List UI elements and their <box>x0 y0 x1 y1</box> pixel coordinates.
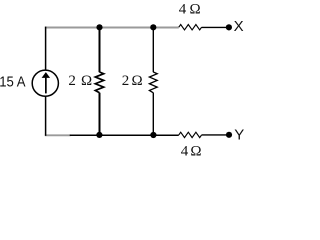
svg-text:2: 2 <box>122 73 130 89</box>
svg-text:Y: Y <box>234 126 244 143</box>
svg-text:X: X <box>234 18 244 35</box>
svg-text:Ω: Ω <box>132 73 143 89</box>
svg-text:Ω: Ω <box>190 144 201 160</box>
svg-text:15 A: 15 A <box>0 74 26 90</box>
svg-text:4: 4 <box>179 2 187 18</box>
svg-text:4: 4 <box>181 144 189 160</box>
svg-text:2: 2 <box>68 73 76 89</box>
svg-text:Ω: Ω <box>190 2 201 18</box>
svg-text:Ω: Ω <box>81 73 92 89</box>
